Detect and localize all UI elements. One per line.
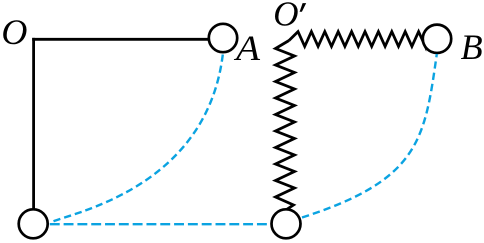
svg-text:O: O <box>1 12 27 52</box>
bottom-left ball (circle below O) <box>19 209 48 238</box>
prime mark of O' <box>300 3 307 12</box>
svg-text:B: B <box>461 27 483 67</box>
svg-text:O: O <box>273 0 298 34</box>
ball A (circle) <box>209 24 237 52</box>
spring: horizontal spring from O' anchor to ball B <box>289 32 427 47</box>
ball B (circle) <box>423 25 451 53</box>
dashed horizontal level line between the two bottom balls <box>50 223 267 225</box>
wire: vertical rod from O down to bottom-left ball <box>32 38 35 209</box>
svg-text:A: A <box>234 28 261 68</box>
spring: vertical spring from O' anchor down to bottom-middle ball <box>276 41 295 210</box>
dashed trajectory of ball B (curve from B to bottom-middle ball) <box>302 54 437 218</box>
dashed trajectory of ball A (quarter-curve from A to bottom-left ball) <box>51 55 223 223</box>
wire: horizontal rod from O to ball A <box>32 38 210 41</box>
bottom-middle ball (circle below O') <box>272 209 301 238</box>
